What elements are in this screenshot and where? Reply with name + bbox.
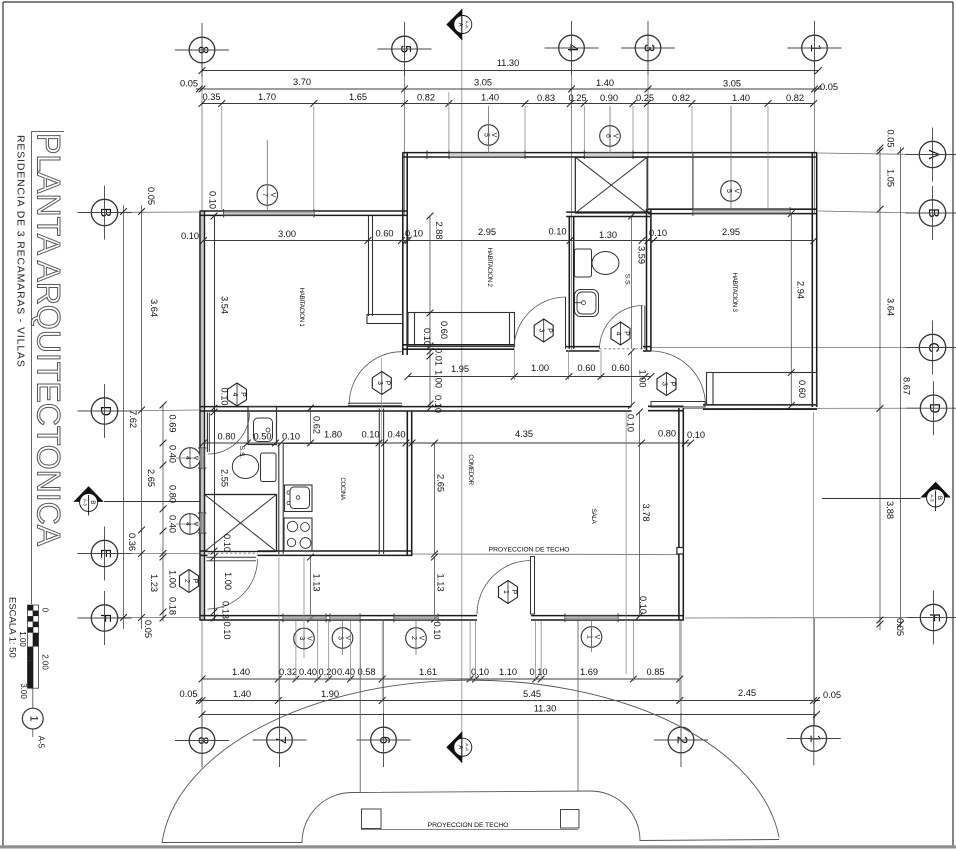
svg-text:HABITACION 1: HABITACION 1 [298, 287, 305, 327]
svg-text:ESCALA 1: 50: ESCALA 1: 50 [7, 597, 18, 658]
axis D line right [684, 407, 919, 409]
svg-text:A-A: A-A [464, 743, 469, 752]
dim row1 line 11.30 [202, 70, 819, 72]
grid bubble 7 bottom [267, 727, 293, 753]
window tag V4 lower [180, 514, 201, 535]
svg-text:A-A: A-A [464, 21, 469, 30]
grid bubble B right [919, 200, 945, 226]
kitchen counter right [378, 409, 380, 555]
dim rowC line [202, 714, 816, 716]
wall hab2 south (axis C) segment 1 [403, 344, 515, 346]
svg-text:0.40: 0.40 [299, 667, 317, 677]
svg-text:S.S.: S.S. [238, 446, 245, 459]
dim row mid line [204, 442, 691, 444]
lavabo bath1 [248, 407, 277, 445]
grid bubble 1 bottom [801, 726, 827, 752]
svg-text:3: 3 [538, 329, 545, 333]
wall right exterior [811, 153, 813, 408]
svg-text:1.00: 1.00 [168, 570, 178, 588]
svg-text:V: V [490, 133, 497, 138]
svg-text:0.18: 0.18 [168, 597, 178, 615]
axis D line left [118, 410, 199, 411]
svg-text:P: P [239, 392, 246, 397]
svg-text:3.00: 3.00 [19, 683, 28, 699]
svg-text:0.05: 0.05 [179, 689, 197, 699]
wall hab1/hab2 shared [402, 153, 404, 356]
axis E line left [118, 553, 199, 555]
window jambs hab1 V7 [223, 209, 225, 218]
svg-text:1.40: 1.40 [233, 689, 251, 699]
glazing front V1 [565, 616, 618, 620]
svg-text:0.10: 0.10 [687, 430, 705, 440]
svg-text:1: 1 [27, 716, 39, 722]
svg-text:0.10: 0.10 [282, 432, 300, 442]
windows left wall inner lines [200, 448, 202, 468]
dim chain x791.3 [790, 214, 792, 406]
wall hall south segment [643, 346, 651, 348]
door tag P2 kitchen [180, 570, 199, 593]
door P2 kitchen arc [208, 559, 258, 609]
grid bubble 1 top [802, 35, 828, 61]
svg-text:P: P [384, 381, 391, 386]
svg-text:0.20: 0.20 [318, 667, 336, 677]
window jambs front wall [282, 614, 284, 623]
svg-text:0.01: 0.01 [434, 348, 444, 366]
grid bubble 3 top [635, 35, 661, 61]
dim row3 line [202, 103, 814, 105]
svg-text:0.10: 0.10 [649, 228, 667, 238]
svg-text:0.10: 0.10 [432, 621, 442, 639]
wall left exterior [199, 212, 201, 621]
lintel dashed over P2 opening [208, 552, 258, 554]
door P1 entry arc [477, 561, 531, 615]
svg-text:0.10: 0.10 [471, 667, 489, 677]
axis F line left [118, 617, 199, 619]
svg-text:1: 1 [502, 590, 509, 594]
svg-text:0.10: 0.10 [529, 667, 547, 677]
dim chain x310.5 kitchen [310, 408, 312, 443]
svg-text:0.83: 0.83 [537, 93, 555, 103]
svg-text:0.05: 0.05 [146, 187, 156, 205]
axis 4 line [571, 61, 573, 350]
svg-text:0.40: 0.40 [168, 515, 178, 533]
svg-text:3.88: 3.88 [885, 501, 895, 519]
door P4 bath2 arc [600, 306, 644, 350]
door tag P3 hab1 [372, 372, 391, 395]
door tag P4 bath2 [611, 322, 630, 345]
walkway east line [577, 621, 579, 792]
glazing V6 top [586, 153, 633, 157]
svg-text:0.80: 0.80 [168, 485, 178, 503]
dim chain x639.5 sala [639, 412, 641, 616]
svg-text:COMEDOR: COMEDOR [467, 454, 474, 485]
title separator line [31, 131, 33, 604]
svg-text:1.70: 1.70 [258, 92, 276, 102]
svg-text:0: 0 [41, 608, 50, 613]
svg-text:PROYECCION DE TECHO: PROYECCION DE TECHO [428, 822, 509, 829]
door bath1 arc [208, 413, 250, 455]
svg-text:2.94: 2.94 [796, 281, 806, 299]
door tag P3 hab2 [534, 319, 553, 342]
wall front (axis F) segment east [531, 615, 684, 617]
wall kitchen south (axis E) segment 1 [200, 550, 208, 552]
grid bubble A right [919, 141, 945, 167]
svg-text:1.65: 1.65 [349, 92, 367, 102]
svg-text:0.82: 0.82 [672, 93, 690, 103]
svg-text:3: 3 [376, 381, 383, 385]
svg-text:0.05: 0.05 [886, 129, 896, 147]
svg-text:5.45: 5.45 [523, 689, 541, 699]
bottom extension lines [278, 557, 280, 702]
section A-A bottom marker [446, 732, 462, 763]
wall sala east [678, 408, 680, 621]
grid bubble F right [920, 604, 946, 630]
closet X hab2 top [575, 157, 647, 213]
svg-text:3: 3 [661, 382, 668, 386]
svg-text:P: P [510, 590, 517, 595]
grid bubble E left [91, 540, 117, 566]
column sala east wall [677, 548, 684, 555]
svg-text:0.10: 0.10 [422, 328, 432, 346]
door tag P3 hab3 [657, 373, 676, 396]
wall bath/comedor north (axis D) segment 1 [200, 406, 632, 408]
svg-text:0.25: 0.25 [636, 93, 654, 103]
svg-text:0.80: 0.80 [217, 432, 235, 442]
svg-text:1.95: 1.95 [451, 364, 469, 374]
svg-text:0.10: 0.10 [626, 414, 636, 432]
svg-text:0.85: 0.85 [646, 667, 664, 677]
svg-text:0.10: 0.10 [181, 231, 199, 241]
dim row hall extensions [513, 350, 515, 380]
grid bubble F left [91, 605, 117, 631]
svg-text:0.05: 0.05 [820, 82, 838, 92]
window jambs hab3 V5 [692, 207, 694, 216]
wall terrace west [692, 153, 694, 210]
svg-text:1.30: 1.30 [599, 230, 617, 240]
svg-text:1.40: 1.40 [481, 93, 499, 103]
svg-text:P: P [622, 331, 629, 336]
svg-text:0.10: 0.10 [405, 229, 423, 239]
svg-text:0.13: 0.13 [221, 601, 231, 619]
door tag P1 entry [499, 581, 518, 604]
border frame [3, 1, 953, 3]
svg-text:1.00: 1.00 [18, 631, 27, 647]
svg-text:0.05: 0.05 [143, 620, 153, 638]
kitchen sink [285, 485, 313, 512]
porch column east [561, 810, 580, 829]
axis C line [650, 347, 919, 349]
svg-text:1.00: 1.00 [638, 369, 648, 387]
svg-text:3.64: 3.64 [886, 298, 896, 316]
svg-text:11.30: 11.30 [534, 704, 557, 714]
glazing V5 hab3 [693, 209, 790, 213]
grid bubble 2 bottom [668, 727, 694, 753]
svg-text:0.10: 0.10 [208, 191, 218, 209]
window tag V1 [581, 627, 602, 648]
svg-text:P: P [546, 328, 553, 333]
window tag V3 b [332, 628, 353, 649]
axis B line left [81, 211, 199, 214]
svg-text:3.54: 3.54 [220, 296, 230, 314]
window jambs top wall [448, 151, 450, 160]
dim chain x434.5 [434, 443, 436, 554]
axis 3 line [647, 61, 649, 212]
svg-text:0.82: 0.82 [417, 93, 435, 103]
svg-text:2.55: 2.55 [220, 469, 230, 487]
svg-text:RESIDENCIA DE 3 RECAMARAS - VI: RESIDENCIA DE 3 RECAMARAS - VILLAS [15, 135, 26, 368]
axis A line [818, 153, 919, 155]
walkway west line [359, 621, 361, 793]
bottom scan band [0, 845, 956, 848]
svg-text:1.00: 1.00 [223, 572, 233, 590]
door bath1 leaf [207, 413, 209, 453]
svg-text:2.95: 2.95 [478, 227, 496, 237]
svg-text:0.60: 0.60 [611, 363, 629, 373]
svg-text:2.45: 2.45 [738, 688, 756, 698]
wall hab1 north (axis B) [200, 210, 408, 212]
closet X bath1 [205, 495, 277, 552]
big terrace arc [162, 680, 779, 843]
svg-text:1.00: 1.00 [531, 363, 549, 373]
svg-text:1.05: 1.05 [886, 169, 896, 187]
wall hab2 east [568, 216, 570, 349]
grid bubble 8 top [189, 37, 215, 63]
svg-text:1.13: 1.13 [436, 573, 446, 591]
toilet bath1 tank [261, 453, 277, 482]
svg-text:0.60: 0.60 [577, 363, 595, 373]
dim row hall line [408, 376, 651, 378]
window tag V7 [257, 185, 278, 206]
svg-text:11.30: 11.30 [497, 58, 520, 68]
svg-text:4: 4 [231, 393, 238, 397]
svg-text:0.69: 0.69 [168, 414, 178, 432]
sink bath2 [575, 290, 599, 317]
svg-text:1.00: 1.00 [434, 370, 444, 388]
svg-text:V: V [306, 636, 313, 641]
svg-text:B: B [936, 496, 942, 500]
window tag V5 hab3 [721, 181, 742, 202]
axis 7 line [279, 621, 281, 727]
kitchen counter top line [283, 443, 379, 445]
wall hab3 south [703, 404, 817, 406]
svg-text:1.80: 1.80 [324, 430, 342, 440]
wall kitchen/comedor divider [406, 412, 408, 557]
svg-text:1.10: 1.10 [499, 667, 517, 677]
axis 2 line [680, 620, 682, 727]
door P3 hab1 arc [349, 352, 402, 405]
svg-text:0.90: 0.90 [600, 93, 618, 103]
svg-text:0.60: 0.60 [439, 321, 449, 339]
wall north main (axis A) [403, 152, 818, 154]
wall kitchen south segment 2 [258, 550, 413, 552]
window tag V4 upper [180, 448, 201, 469]
door tag P4 hab1 [228, 383, 247, 406]
section A-A top marker [446, 9, 462, 40]
glazing left V4 upper [200, 448, 204, 468]
svg-text:1.23: 1.23 [149, 574, 159, 592]
dim row2 line [196, 88, 822, 90]
axis 1 line [814, 61, 816, 213]
grid bubble D left [91, 398, 117, 424]
wall hab3 west [646, 209, 648, 351]
svg-text:3.05: 3.05 [474, 78, 492, 88]
glazing left V4 lower [200, 513, 204, 533]
svg-text:V: V [269, 193, 276, 198]
svg-text:1.61: 1.61 [419, 667, 437, 677]
window jambs left wall [198, 447, 206, 449]
svg-text:SALA: SALA [590, 509, 597, 525]
dim right chain1 line [879, 147, 881, 630]
axis B line right [818, 211, 919, 213]
svg-text:0.10: 0.10 [548, 227, 566, 237]
dim rowA line [202, 678, 680, 680]
dim chain x430 [429, 216, 431, 408]
wall axis D segment 2 [648, 405, 684, 407]
glazing V7 hab1 [224, 211, 314, 215]
svg-text:V: V [593, 635, 600, 640]
svg-text:0.40: 0.40 [387, 430, 405, 440]
dim left chain2 line [162, 405, 164, 621]
door P3 hab3 arc [651, 351, 706, 406]
grid bubble 6 bottom [371, 727, 397, 753]
wall bath2 south segment [566, 346, 600, 348]
svg-text:0.80: 0.80 [658, 429, 676, 439]
section A-A cut line [461, 40, 463, 732]
svg-text:0.36: 0.36 [127, 533, 137, 551]
svg-text:8.67: 8.67 [902, 377, 912, 395]
dim left chain outer line [123, 205, 125, 629]
svg-text:7.62: 7.62 [128, 410, 138, 428]
svg-text:0.40: 0.40 [337, 667, 355, 677]
axis E roof projection line [412, 553, 679, 556]
toilet bath1 bowl [232, 455, 258, 479]
svg-text:0.10: 0.10 [222, 534, 232, 552]
svg-text:1.69: 1.69 [580, 667, 598, 677]
svg-text:V: V [612, 134, 619, 139]
svg-text:0.25: 0.25 [568, 93, 586, 103]
closet hab3 [707, 373, 818, 405]
svg-text:3.59: 3.59 [637, 246, 647, 264]
grid bubble 4 top [559, 35, 585, 61]
svg-text:0.10: 0.10 [220, 387, 230, 405]
svg-text:HABITACION 3: HABITACION 3 [731, 272, 738, 312]
svg-text:4: 4 [615, 332, 622, 336]
svg-text:P: P [191, 579, 198, 584]
scale bar [28, 605, 39, 688]
door P1 entry leaf [531, 557, 535, 615]
closet hab2 [408, 313, 515, 347]
grid bubble C right [919, 334, 945, 360]
window V5 hab3 inner lines [693, 209, 790, 211]
toilet bath2 tank [575, 249, 592, 277]
svg-text:1.13: 1.13 [312, 573, 322, 591]
svg-text:S.S.: S.S. [624, 274, 631, 287]
axis 8 line [201, 63, 203, 727]
window tag V6 [600, 126, 621, 147]
closet hab1 [368, 216, 370, 316]
door P3 hab2 arc [514, 297, 566, 349]
top extension lines [221, 106, 223, 211]
grid bubble D right [920, 395, 946, 421]
svg-text:4.35: 4.35 [515, 429, 533, 439]
svg-text:0.10: 0.10 [361, 430, 379, 440]
svg-text:2.88: 2.88 [434, 221, 444, 239]
svg-text:A-3: A-3 [83, 499, 88, 507]
svg-text:1.40: 1.40 [596, 78, 614, 88]
window tag V2 [406, 628, 427, 649]
lintel dashed over P4 opening [600, 348, 644, 350]
svg-text:0.05: 0.05 [823, 690, 841, 700]
wall below closet X [566, 211, 650, 213]
porch column west [362, 809, 382, 829]
svg-text:V: V [733, 189, 740, 194]
svg-text:0.32: 0.32 [279, 667, 297, 677]
svg-text:2.00: 2.00 [41, 654, 50, 670]
dim left chain inner line [141, 205, 143, 629]
toilet bath2 bowl [592, 252, 619, 275]
dim chain x214 [214, 216, 216, 621]
section B-B right marker [920, 482, 950, 498]
window tag V3 a [294, 628, 315, 649]
svg-text:0.10: 0.10 [222, 621, 232, 639]
svg-text:0.35: 0.35 [202, 92, 220, 102]
axis 6 line [383, 621, 385, 727]
svg-text:2.65: 2.65 [436, 474, 446, 492]
svg-text:PROYECCION DE TECHO: PROYECCION DE TECHO [489, 547, 570, 554]
svg-text:1.40: 1.40 [232, 667, 250, 677]
svg-text:0.82: 0.82 [786, 93, 804, 103]
svg-text:3.70: 3.70 [293, 77, 311, 87]
svg-text:0.60: 0.60 [375, 229, 393, 239]
glazing front V3a [283, 616, 326, 620]
svg-text:A-3: A-3 [930, 494, 935, 502]
svg-text:3.05: 3.05 [723, 79, 741, 89]
svg-text:0.40: 0.40 [168, 445, 178, 463]
kitchen counter left [278, 444, 280, 554]
svg-text:0.10: 0.10 [433, 395, 443, 413]
window V7 inner lines [224, 211, 314, 213]
porch outline [162, 791, 779, 843]
svg-text:A: A [456, 745, 462, 749]
svg-text:B: B [89, 500, 95, 504]
dim 1.00 hall vertical line [631, 352, 633, 406]
axis F line right [685, 617, 919, 620]
svg-text:PLANTA ARQUITECTONICA: PLANTA ARQUITECTONICA [31, 133, 67, 547]
dim chain x631.6 [631, 216, 633, 348]
svg-text:P: P [668, 382, 675, 387]
svg-text:2.65: 2.65 [146, 469, 156, 487]
svg-text:3.64: 3.64 [149, 299, 159, 317]
glazing V5 hab2 top [450, 153, 524, 157]
svg-text:HABITACION 2: HABITACION 2 [486, 247, 493, 287]
glazing front V3b [330, 616, 360, 620]
svg-text:A: A [456, 22, 462, 26]
grid bubble B left [91, 199, 117, 225]
stove [284, 518, 312, 551]
windows front wall inner lines [283, 616, 326, 618]
grid bubble 5 top [392, 36, 418, 62]
sheet ref circle 1 [22, 708, 43, 729]
grid bubble 8 bottom [189, 728, 215, 754]
svg-text:0.60: 0.60 [797, 380, 807, 398]
svg-text:0.50: 0.50 [253, 432, 271, 442]
dim right chain2 line [900, 147, 902, 628]
svg-text:1.40: 1.40 [732, 93, 750, 103]
porch inner line [361, 829, 578, 831]
axis 5 line [404, 62, 406, 216]
svg-text:0.05: 0.05 [180, 79, 198, 89]
svg-text:3.00: 3.00 [278, 229, 296, 239]
